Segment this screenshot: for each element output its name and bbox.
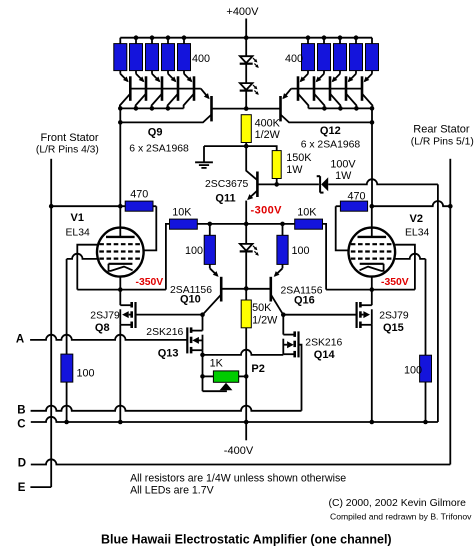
resistor 100 left [61,354,73,382]
node 150K bottom junction [274,182,279,187]
svg-text:6 x 2SA1968: 6 x 2SA1968 [129,143,189,154]
label 50K wattage [252,315,278,327]
LED D2 [240,83,259,95]
transistor Q9 unit 3 [152,71,162,109]
label Q10 type [170,285,212,296]
svg-text:Blue Hawaii Electrostatic Ampl: Blue Hawaii Electrostatic Amplifier (one… [101,533,392,547]
wire front stator to E [50,206,52,487]
label Q16 [294,295,315,307]
wire V1 g3 drop [66,259,68,354]
transistor Q12 unit 5 [362,71,372,109]
wire V1 cathode node [77,289,166,291]
label V1 type [66,228,90,239]
resistor 400 #1 [114,38,127,71]
node bus junction 8 [338,35,343,40]
transistor Q11 bar [256,172,259,198]
svg-text:400K: 400K [255,118,281,130]
node Q13 drain junction [200,312,205,317]
transistor Q9 unit 1 [120,71,130,109]
svg-text:Q16: Q16 [294,295,315,307]
resistor 10K right [295,219,323,229]
label Q10 [180,293,201,305]
svg-text:10K: 10K [172,207,192,219]
wire 10K left corner [166,224,170,290]
resistor 100 right [420,355,432,382]
label 400K wattage [255,129,281,141]
transistor Q16 emitter [274,264,283,277]
wire bus A [30,335,188,340]
svg-text:All resistors are 1/4W unless: All resistors are 1/4W unless shown othe… [130,473,346,485]
transistor Q14 2SK216 [283,331,298,357]
svg-text:P2: P2 [251,363,264,375]
resistor 100 mid-right [277,224,288,265]
svg-text:100V: 100V [330,159,356,171]
svg-text:(L/R Pins 5/1): (L/R Pins 5/1) [411,137,474,148]
node bus junction 5 [244,35,249,40]
label Q14 type [305,338,342,349]
svg-text:2SJ79: 2SJ79 [90,311,120,322]
transistor Q15 arrow [360,311,370,318]
node -300V junction [244,222,249,227]
net -400V label [224,445,254,457]
wire rear stator to D [449,206,451,464]
LED D3 [240,244,259,256]
wire 15K right corner [323,224,327,290]
node bus junction 4 [182,35,187,40]
wire mid LED top [245,224,247,244]
label 1K [210,358,224,370]
svg-text:6 x 2SA1968: 6 x 2SA1968 [301,140,361,151]
svg-text:400: 400 [285,53,303,65]
potentiometer P2 wiper [203,383,233,391]
wire 100 left bottom [66,382,68,422]
transistor Q9 base bar [210,96,213,121]
node bus junction 6 [306,35,311,40]
wire to 150K [246,146,277,151]
wire Q12 base bus [291,88,362,90]
resistor 400K 1/2W [241,115,251,143]
label Rear Stator [413,124,470,136]
svg-text:470: 470 [348,190,366,202]
node Q12 collector junction 1 [322,106,327,111]
resistor 400 #6 [302,38,315,71]
wire Q13-Q14 source link [203,350,284,355]
wire to ground [204,145,246,147]
wire bus B [31,406,302,411]
wire Q9 collector bus [120,107,183,109]
label Q8 type [90,311,120,322]
resistor 400 #4 [162,38,175,71]
node Q9/Q12 base junction [244,106,249,111]
svg-text:Q13: Q13 [158,348,179,360]
svg-text:2SJ79: 2SJ79 [379,311,409,322]
svg-text:150K: 150K [286,152,312,164]
label Q14 [314,349,336,361]
svg-text:2SK216: 2SK216 [305,338,342,349]
wire V2 cathode node [326,289,415,291]
label V2 [410,213,423,225]
transistor Q12 emitter [282,89,291,100]
net -300V label [251,205,283,217]
node 100 left top [208,222,213,227]
svg-text:1W: 1W [335,170,352,182]
resistor 470 right [340,201,367,211]
wire Q13 source [202,350,204,391]
svg-text:Front Stator: Front Stator [41,132,99,144]
wire +400V bus [120,37,372,39]
transistor Q13 2SK216 [187,327,202,353]
svg-text:1/2W: 1/2W [255,129,281,141]
net +400V label [226,6,259,18]
transistor Q12 unit 4 [346,71,356,109]
svg-text:Q15: Q15 [383,322,404,334]
label 400 right [285,53,303,65]
label Q12 [320,125,341,137]
label 100V wattage [335,170,352,182]
node C junction 5 [423,420,428,425]
svg-text:1/2W: 1/2W [252,315,278,327]
svg-text:-350V: -350V [136,277,164,288]
wire 100 right bottom [425,382,427,422]
transistor Q16 collector [271,295,284,315]
transistor Q10 bar [220,277,223,302]
wire LED chain top [245,38,247,57]
node Q13 source junction [200,353,205,358]
label P2 [251,363,264,375]
wire 400K bottom [245,143,247,147]
svg-text:Q11: Q11 [215,192,235,204]
tube V2 EL34 [349,206,396,289]
label 100 left [77,368,95,380]
label B [17,405,25,417]
resistor 400 #2 [130,38,143,71]
label Q11 [215,192,235,204]
wire bus D [31,459,451,464]
diode zener 100V [317,176,329,192]
node 470 right junction [370,204,375,209]
title text [101,533,392,547]
label Q9 [148,127,163,139]
wire Q8 source down [119,325,121,422]
wire V2 g2 lead [336,206,349,250]
wire 50K to pot [245,328,247,377]
wire Q12 base lead [246,108,280,110]
label Q13 type [146,327,183,338]
wire +400V drop [245,19,247,38]
wire Q11 emitter down [245,201,247,224]
svg-text:(C) 2000, 2002 Kevin Gilmore: (C) 2000, 2002 Kevin Gilmore [329,498,467,509]
svg-text:100: 100 [292,245,310,257]
resistor 400 #3 [146,38,159,71]
wire Q12 collector bus [308,107,372,109]
resistor 150K 1W [272,151,281,179]
wire V1 g1 lead [77,245,97,290]
svg-text:+400V: +400V [226,6,259,18]
node Q12 collector junction 2 [338,106,343,111]
node 470 left junction [118,204,123,209]
node Q12 collector corner [370,120,375,125]
node V2 cathode [370,287,375,292]
svg-text:EL34: EL34 [66,228,90,239]
transistor Q8 arrow [122,311,132,318]
wire Q8 gate lead [136,314,203,316]
node bus junction 3 [166,35,171,40]
label Q15 [383,322,404,334]
wire Q15 drain [371,290,373,306]
node rear stator junction [448,204,453,209]
tube V1 EL34 [97,206,144,289]
wire bus C [31,417,438,422]
wire front stator to 470 [51,205,125,207]
svg-text:Q10: Q10 [180,293,201,305]
label 100V [330,159,356,171]
label Q12 type [301,140,361,151]
node Q9 collector junction 2 [134,106,139,111]
label 470 right [348,190,366,202]
svg-text:Q14: Q14 [314,349,336,361]
resistor 10K [170,219,198,229]
label Q13 [158,348,179,360]
wire rear stator to 470 [372,201,451,206]
node Q9 collector junction 1 [118,106,123,111]
label 100 mid-right [292,245,310,257]
label LR Pins 4/3 [36,145,99,156]
label 10K [172,207,192,219]
label V1 [71,212,84,224]
wire LED2 down [245,91,247,109]
label C [17,419,25,431]
svg-text:2SK216: 2SK216 [146,327,183,338]
wire Q9 collector drop [119,108,121,206]
wire 10K-15K [197,223,294,225]
wire pot to C line [245,376,247,422]
transistor Q11 emitter [247,191,257,201]
transistor Q15 2SJ79 [357,302,372,328]
svg-text:1W: 1W [286,164,303,176]
wire pot left lead [203,375,214,377]
svg-text:Q12: Q12 [320,125,341,137]
label Q9 type [129,143,189,154]
node bus junction 2 [150,35,155,40]
svg-text:(L/R Pins 4/3): (L/R Pins 4/3) [36,145,99,156]
svg-text:-400V: -400V [224,445,254,457]
node front stator junction [49,204,54,209]
resistor 400 #8 [334,38,347,71]
node bus junction 7 [322,35,327,40]
svg-text:Q8: Q8 [95,322,110,334]
wire zener to right [328,179,438,184]
svg-text:B: B [17,405,25,417]
node C junction 4 [370,420,375,425]
wire Q9 base lead [212,108,247,110]
wire rear stator drop [449,159,451,206]
label 400K [255,118,281,130]
node pot right junction [244,374,249,379]
transistor Q9 emitter [201,89,210,100]
resistor 100 mid-left [204,224,215,265]
wire Q11 collector [257,183,276,185]
node pot left junction [200,374,205,379]
node Q9 collector corner [118,120,123,125]
label 50K [252,302,272,314]
wire Q15 gate lead [283,314,356,316]
svg-text:Rear Stator: Rear Stator [413,124,470,136]
transistor Q10 collector [203,295,222,315]
node Q9 collector junction 3 [150,106,155,111]
svg-text:100: 100 [77,368,95,380]
wire 470R stub [336,205,341,207]
svg-text:50K: 50K [252,302,272,314]
wire pot right lead [239,375,247,377]
transistor Q12 base bar [279,96,282,121]
transistor Q13 arrow [192,337,202,344]
wire bus E [30,486,51,488]
label V2 type [405,228,429,239]
resistor 400 #7 [318,38,331,71]
transistor Q12 unit 2 [314,71,324,109]
label 10K right [297,207,317,219]
note LEDs [130,485,215,497]
label 100 right [404,365,422,377]
net -350V right [381,277,409,288]
ground symbol [195,146,213,168]
wire Q15 source down [371,325,373,422]
resistor 400 #9 [350,38,363,71]
wire Q9 base bus [130,88,201,90]
node bus junction 1 [134,35,139,40]
node Q14 drain junction [281,312,286,317]
svg-text:Q9: Q9 [148,127,163,139]
transistor Q12 unit 3 [330,71,340,109]
label 150K [286,152,312,164]
node 100 right top [280,222,285,227]
wire V1 g2 lead [144,206,157,250]
svg-text:-350V: -350V [381,277,409,288]
transistor Q9 unit 2 [136,71,146,109]
svg-text:V2: V2 [410,213,423,225]
svg-text:Compiled and redrawn by B. Tri: Compiled and redrawn by B. Trifonov [330,512,472,522]
wire Q16 base [246,288,271,290]
wire 470 left end [153,205,156,207]
label 470 left [130,189,148,201]
label Q8 [95,322,110,334]
wire Q13 drain [202,315,204,331]
svg-text:D: D [18,457,26,469]
node C junction 1 [64,420,69,425]
node 400K bottom junction [244,144,249,149]
transistor Q14 arrow [283,341,293,348]
wire V2 g1 lead [395,245,415,290]
transistor Q11 base [246,146,257,180]
wire Q12 collector drop [371,108,373,206]
wire front stator drop [50,159,52,206]
wire 50K top [245,289,247,301]
wire Q10 base [221,288,246,290]
label 150K wattage [286,164,303,176]
transistor Q9 collector [120,115,211,123]
wire V2 g3 lead [395,254,425,259]
wire V1 g3 lead [67,254,97,259]
node V1 cathode [118,287,123,292]
transistor Q9 unit 4 [168,71,178,109]
node bus junction 9 [354,35,359,40]
resistor 470 left [125,201,153,211]
wire LED1-LED2 [245,64,247,83]
svg-text:470: 470 [130,189,148,201]
resistor 400 #10 [366,38,379,71]
svg-text:A: A [16,333,24,345]
wire mid LED down [245,252,247,289]
label D [18,457,26,469]
node Q12 collector junction 3 [354,106,359,111]
node mid LED bottom junction [244,286,249,291]
svg-text:10K: 10K [297,207,317,219]
label Q16 type [281,286,323,297]
label 400 left [192,53,210,65]
node Q9 collector junction 4 [166,106,171,111]
wire Q8 drain [119,290,121,306]
resistor 50K 1/2W [241,300,251,328]
transistor Q12 collector [281,115,373,123]
label Q11 type [205,179,249,190]
node C junction 3 [244,420,249,425]
label LR Pins 5/1 [411,137,474,148]
wire 150K bottom [276,179,278,185]
svg-text:V1: V1 [71,212,84,224]
svg-text:1K: 1K [210,358,224,370]
transistor Q10 emitter [210,264,219,277]
LED D1 [240,56,259,68]
svg-text:-300V: -300V [251,205,283,217]
label E [18,482,26,494]
note resistors [130,473,346,485]
wire -400V stub [245,422,247,440]
label A [16,333,24,345]
resistor 400 #5 [178,38,191,71]
transistor Q9 unit 5 [184,71,194,109]
wire Q14 drain [282,315,284,335]
node Q12 collector junction 4 [370,106,375,111]
wire Q14 gate drop [299,345,302,411]
svg-text:400: 400 [192,53,210,65]
note redrawn [330,512,472,522]
transistor Q8 2SJ79 [120,302,135,328]
label Front Stator [41,132,99,144]
net -350V left [136,277,164,288]
svg-text:2SC3675: 2SC3675 [205,179,249,190]
svg-text:E: E [18,482,26,494]
transistor Q16 bar [269,277,272,302]
svg-text:All LEDs are 1.7V: All LEDs are 1.7V [130,485,215,497]
label 100 mid-left [185,245,203,257]
label Q15 type [379,311,409,322]
svg-text:C: C [17,419,25,431]
svg-text:EL34: EL34 [405,228,429,239]
note copyright [329,498,467,509]
potentiometer P2 1K [213,371,238,382]
node C junction 2 [118,420,123,425]
wire 100V drop [437,184,439,422]
svg-text:100: 100 [404,365,422,377]
wire zener line [277,183,319,185]
svg-text:100: 100 [185,245,203,257]
transistor Q12 unit 1 [298,71,308,109]
wire V2 g3 drop [425,259,427,355]
